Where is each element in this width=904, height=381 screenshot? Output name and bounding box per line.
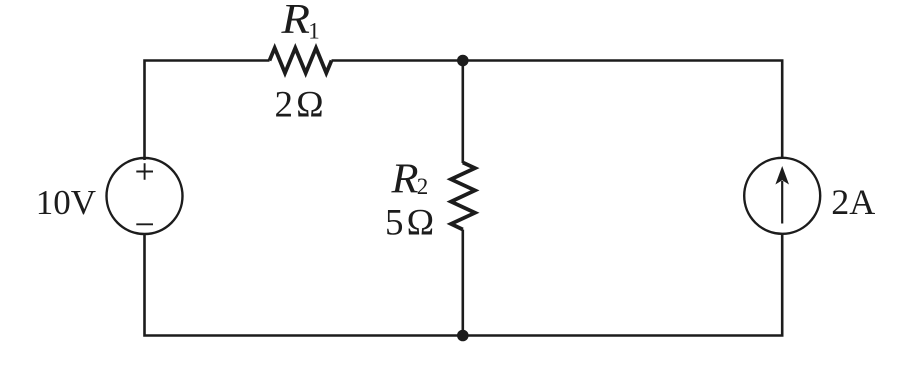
current source I1 circle <box>744 158 820 234</box>
resistor R1 (zigzag) <box>270 48 332 73</box>
wire: top segment from node A to top-right corner, down to current source <box>463 61 782 160</box>
voltage source plus sign <box>136 163 153 180</box>
svg-text:2 Ω: 2 Ω <box>275 85 324 126</box>
current source arrowhead <box>775 166 789 185</box>
wire: top segment from R1 to node A <box>332 59 463 62</box>
svg-text:1: 1 <box>308 19 320 44</box>
voltage source minus sign <box>136 223 153 225</box>
svg-text:5 Ω: 5 Ω <box>385 202 434 243</box>
wire: left bottom (voltage source to bottom-left corner to node B) <box>145 234 463 336</box>
svg-text:R: R <box>390 156 418 202</box>
resistor R2 (zigzag) <box>451 163 475 230</box>
svg-text:R: R <box>280 0 310 43</box>
svg-text:2: 2 <box>417 174 429 199</box>
voltage source V1 circle <box>107 158 183 234</box>
node B (bottom junction dot) <box>457 330 469 342</box>
current source arrow shaft <box>781 181 783 224</box>
node A (top junction dot) <box>457 55 469 67</box>
wire: top-left segment (left corner to R1) <box>145 61 270 161</box>
wire: middle branch lower (R2 to node B) <box>461 230 464 336</box>
wire: middle branch upper (node A to R2) <box>461 61 464 164</box>
svg-text:2A: 2A <box>831 182 875 222</box>
svg-text:10V: 10V <box>36 183 96 222</box>
wire: bottom right (node B to bottom-right corner up to current source) <box>463 234 782 336</box>
